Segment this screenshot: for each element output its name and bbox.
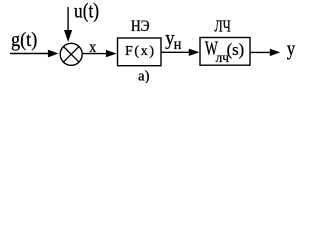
block НЭ F(x) box [118,38,162,66]
wire output y [250,51,271,53]
arrowhead into W box [189,49,200,56]
summing junction (multiplier circle) [60,43,82,65]
arrowhead into summing junction [48,50,59,58]
arrowhead down into summing junction [64,30,72,42]
block ЛЧ W box [200,38,250,66]
svg-text:u(t): u(t) [74,1,99,23]
wire u(t) vertical [67,7,69,31]
wire input g(t) [10,53,49,55]
svg-text:НЭ: НЭ [131,18,150,35]
wire F(x) to W box [161,51,190,53]
multiplier X diagonal 2 [63,47,79,63]
arrowhead into F(x) box [106,50,117,57]
svg-text:н: н [174,34,182,53]
svg-text:ЛЧ: ЛЧ [214,16,230,35]
svg-text:y: y [287,38,296,60]
svg-text:(s): (s) [227,40,245,59]
arrowhead output [270,49,281,56]
svg-text:g(t): g(t) [11,29,37,51]
wire summing junction to F(x) [82,53,107,55]
svg-text:а): а) [138,68,150,83]
multiplier X diagonal 1 [63,47,79,63]
